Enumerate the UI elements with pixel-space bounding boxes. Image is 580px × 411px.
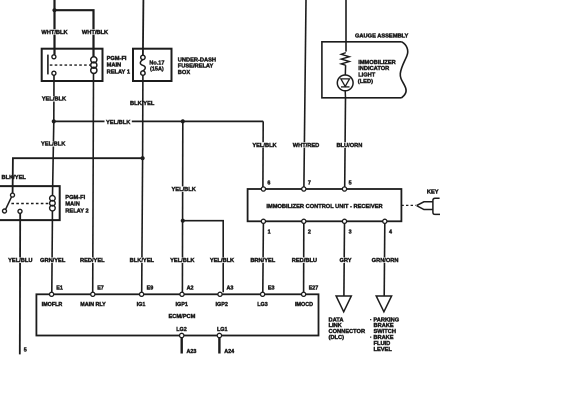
svg-text:BOX: BOX	[178, 70, 191, 76]
svg-text:UNDER-DASH: UNDER-DASH	[178, 57, 216, 63]
junction: relay 1 feed split	[52, 8, 56, 12]
svg-text:BRN/YEL: BRN/YEL	[250, 258, 275, 264]
wire: fuse feed from top	[142, 0, 145, 56]
svg-text:A23: A23	[187, 349, 197, 355]
svg-text:ECM/PCM: ECM/PCM	[168, 314, 195, 320]
svg-text:KEY: KEY	[427, 189, 439, 195]
label BLK/YEL (E9 wire)	[129, 257, 155, 263]
svg-text:GRN/YEL: GRN/YEL	[40, 258, 66, 264]
svg-text:A2: A2	[187, 286, 194, 292]
svg-text:YEL/BLK: YEL/BLK	[42, 97, 67, 103]
pin LG1 on ECM bottom edge	[217, 333, 221, 337]
svg-text:(15A): (15A)	[150, 66, 164, 72]
wire RED/YEL: relay 1 coil down to ECM pin E7	[92, 73, 95, 293]
svg-text:BLK/YEL: BLK/YEL	[130, 258, 155, 264]
svg-text:YEL/BLK: YEL/BLK	[210, 258, 235, 264]
label YEL/BLK (pin 6 wire)	[252, 142, 279, 148]
relay 2 switch contacts	[11, 193, 15, 197]
relay 2 mechanical dashed link	[11, 203, 48, 205]
pin E1 / IMOFLR	[50, 292, 54, 296]
svg-text:WHT/RED: WHT/RED	[293, 143, 320, 149]
wire WHT/RED: from top to immobilizer pin 7	[304, 0, 306, 187]
svg-text:YEL/BLU: YEL/BLU	[8, 258, 32, 264]
svg-text:IMOFLR: IMOFLR	[42, 302, 63, 308]
svg-text:FUSE/RELAY: FUSE/RELAY	[178, 64, 214, 70]
svg-text:PGM-FI: PGM-FI	[107, 56, 127, 62]
gauge assembly box with torn right edge	[322, 42, 402, 98]
svg-text:6: 6	[267, 181, 270, 187]
wire: left vertical YEL/BLK continues to relay 2 coil	[53, 121, 54, 195]
pin 7	[302, 187, 306, 191]
label WHT/BLK (switch side)	[41, 29, 69, 35]
bus 2 BLK/YEL horizontal	[13, 158, 143, 193]
svg-text:IMMOBILIZER CONTROL UNIT - REC: IMMOBILIZER CONTROL UNIT - RECEIVER	[266, 204, 382, 210]
pin 1	[261, 219, 265, 223]
svg-text:LG3: LG3	[257, 302, 267, 308]
svg-text:IMOCD: IMOCD	[295, 302, 313, 308]
key symbol	[417, 202, 433, 210]
label YEL/BLK (below relay 1)	[41, 96, 68, 102]
label RED/YEL	[79, 257, 106, 263]
svg-text:E27: E27	[309, 286, 319, 292]
svg-text:GAUGE ASSEMBLY: GAUGE ASSEMBLY	[355, 33, 409, 39]
pin 4	[383, 219, 387, 223]
wire BRN/YEL: immobilizer pin 1 to ECM pin E3	[262, 223, 265, 292]
svg-text:LIGHT: LIGHT	[358, 73, 376, 79]
wire YEL/BLK: bus 1 down to ECM pin A2	[181, 121, 183, 292]
svg-text:1: 1	[268, 229, 271, 235]
svg-text:PGM-FI: PGM-FI	[65, 195, 85, 201]
label BLK/YEL (below fuse)	[129, 101, 155, 107]
svg-text:LG1: LG1	[217, 327, 227, 333]
pin 5	[342, 187, 346, 191]
label YEL/BLK (A3 wire)	[209, 257, 236, 263]
svg-text:MAIN: MAIN	[65, 201, 80, 207]
svg-text:MAIN RLY: MAIN RLY	[80, 302, 106, 308]
svg-text:7: 7	[308, 181, 311, 187]
fuse No.17 (15A) symbol	[141, 55, 145, 59]
label YEL/BLK (mid left)	[40, 141, 67, 147]
wire: WHT/BLK feed from top to relay 1 switch	[53, 0, 55, 55]
wire GRN/YEL: relay 2 coil down to ECM pin E1	[51, 220, 54, 292]
svg-text:RED/BLU: RED/BLU	[292, 258, 317, 264]
wire: LED to box bottom	[344, 91, 346, 98]
relay 2 coil	[50, 196, 56, 202]
svg-text:IMMOBILIZER: IMMOBILIZER	[358, 60, 396, 66]
label BLU/ORN	[336, 142, 363, 148]
resistor (indicator light dropping resistor)	[341, 53, 349, 66]
wire: feed into gauge assembly from top	[345, 0, 347, 52]
svg-text:IGP1: IGP1	[176, 302, 188, 308]
svg-text:IG1: IG1	[137, 302, 146, 308]
svg-text:YEL/BLK: YEL/BLK	[106, 120, 131, 126]
label YEL/BLU	[7, 257, 33, 263]
svg-text:YEL/BLK: YEL/BLK	[252, 143, 277, 149]
label YEL/BLK (A2 wire upper)	[171, 186, 198, 192]
pin A3 / IGP2	[218, 292, 222, 296]
wire YEL/BLK: relay 1 switch output down to bus	[53, 75, 55, 121]
wire: bus 1 down to immobilizer pin 6	[262, 121, 264, 186]
pin E3 / LG3	[261, 292, 265, 296]
wire GRY: immobilizer pin 3 to data link connector	[343, 223, 346, 296]
relay K1: PGM-FI MAIN RELAY 1 box	[42, 49, 103, 81]
wire BLK/YEL: fuse output down to bus 2	[142, 75, 144, 158]
svg-text:3: 3	[349, 229, 352, 235]
junction: fuse wire to bus 2	[141, 156, 145, 160]
bus 1 YEL/BLK horizontal (label inline)	[54, 120, 105, 122]
wire BLK/YEL: bus 2 junction down to ECM pin E9	[141, 158, 144, 292]
pin 3	[342, 219, 346, 223]
wire: branch to relay 1 coil	[55, 10, 94, 57]
svg-text:RELAY 2: RELAY 2	[65, 208, 88, 214]
fuse box outline	[133, 49, 172, 81]
svg-text:E7: E7	[97, 286, 104, 292]
label GRY	[339, 257, 353, 263]
svg-text:(LED): (LED)	[358, 79, 373, 85]
svg-text:RED/YEL: RED/YEL	[80, 258, 105, 264]
label RED/BLU	[291, 257, 318, 263]
dashed link to key	[401, 204, 415, 206]
svg-text:(DLC): (DLC)	[329, 335, 345, 341]
wire YEL/BLU: relay 2 contact down to connector pin 5	[19, 213, 21, 354]
immobilizer control unit - receiver box	[248, 189, 402, 221]
svg-text:MAIN: MAIN	[107, 63, 122, 69]
pin E7 / MAIN RLY	[91, 292, 95, 296]
wire stub A24	[218, 338, 220, 354]
svg-text:5: 5	[349, 181, 352, 187]
svg-text:WHT/BLK: WHT/BLK	[82, 30, 109, 36]
pin E9 / IG1	[140, 292, 144, 296]
relay 2 switch arm	[6, 197, 12, 209]
relay 1 switch contacts	[47, 55, 49, 75]
svg-text:5: 5	[24, 348, 27, 354]
svg-text:GRY: GRY	[339, 258, 351, 264]
svg-text:A24: A24	[224, 349, 234, 355]
label YEL/BLK (A2 wire lower)	[169, 257, 196, 263]
junction: bus 1 left	[52, 119, 56, 123]
wire GRN/ORN: immobilizer pin 4 to parking brake circuit	[383, 223, 386, 296]
svg-text:2: 2	[308, 229, 311, 235]
wire: relay 2 coil stub to box bottom	[51, 211, 53, 220]
svg-text:E1: E1	[56, 286, 63, 292]
label BRN/YEL	[250, 257, 277, 263]
wire YEL/BLK: branch to ECM pin A3	[183, 221, 223, 293]
relay 1 mechanical dashed link	[50, 64, 91, 66]
svg-text:E3: E3	[268, 286, 275, 292]
svg-text:GRN/ORN: GRN/ORN	[372, 258, 399, 264]
junction: A3 branch	[181, 219, 185, 223]
relay K2: PGM-FI MAIN RELAY 2 box (cut at left edge)	[0, 186, 60, 220]
wire stub A23	[180, 338, 182, 354]
svg-text:BLK/YEL: BLK/YEL	[2, 175, 27, 181]
pin LG2 on ECM bottom edge	[180, 333, 184, 337]
off-page arrow: parking brake switch / brake fluid level	[376, 296, 391, 312]
relay 1 coil	[91, 57, 97, 63]
wire RED/BLU: immobilizer pin 2 to ECM pin E27	[303, 223, 305, 292]
svg-text:YEL/BLK: YEL/BLK	[172, 187, 197, 193]
off-page arrow: data link connector	[336, 296, 351, 312]
label GRN/YEL	[39, 257, 66, 263]
label WHT/BLK (coil side)	[81, 29, 110, 35]
pin E27 / IMOCD	[302, 292, 306, 296]
svg-text:LG2: LG2	[176, 327, 186, 333]
pin 6	[261, 187, 265, 191]
svg-text:IGP2: IGP2	[216, 302, 228, 308]
wire: resistor to LED	[344, 65, 346, 75]
ECM/PCM box	[36, 294, 318, 335]
svg-text:YEL/BLK: YEL/BLK	[41, 142, 66, 148]
svg-text:E9: E9	[147, 286, 154, 292]
svg-text:A3: A3	[227, 286, 234, 292]
label GRN/ORN	[371, 257, 399, 263]
svg-text:4: 4	[389, 229, 392, 235]
pin 2	[302, 219, 306, 223]
LED D1: immobilizer indicator light	[337, 75, 353, 91]
svg-text:INDICATOR: INDICATOR	[358, 66, 389, 72]
pin A2 / IGP1	[180, 292, 184, 296]
label WHT/RED	[292, 142, 320, 148]
svg-text:WHT/BLK: WHT/BLK	[41, 30, 68, 36]
wire BLU/ORN: gauge to immobilizer pin 5	[344, 98, 347, 187]
svg-text:YEL/BLK: YEL/BLK	[170, 258, 195, 264]
svg-text:LEVEL: LEVEL	[374, 347, 393, 353]
svg-text:RELAY 1: RELAY 1	[107, 69, 130, 75]
junction: A2 branch off bus 1	[181, 119, 185, 123]
svg-text:BLU/ORN: BLU/ORN	[336, 143, 362, 149]
